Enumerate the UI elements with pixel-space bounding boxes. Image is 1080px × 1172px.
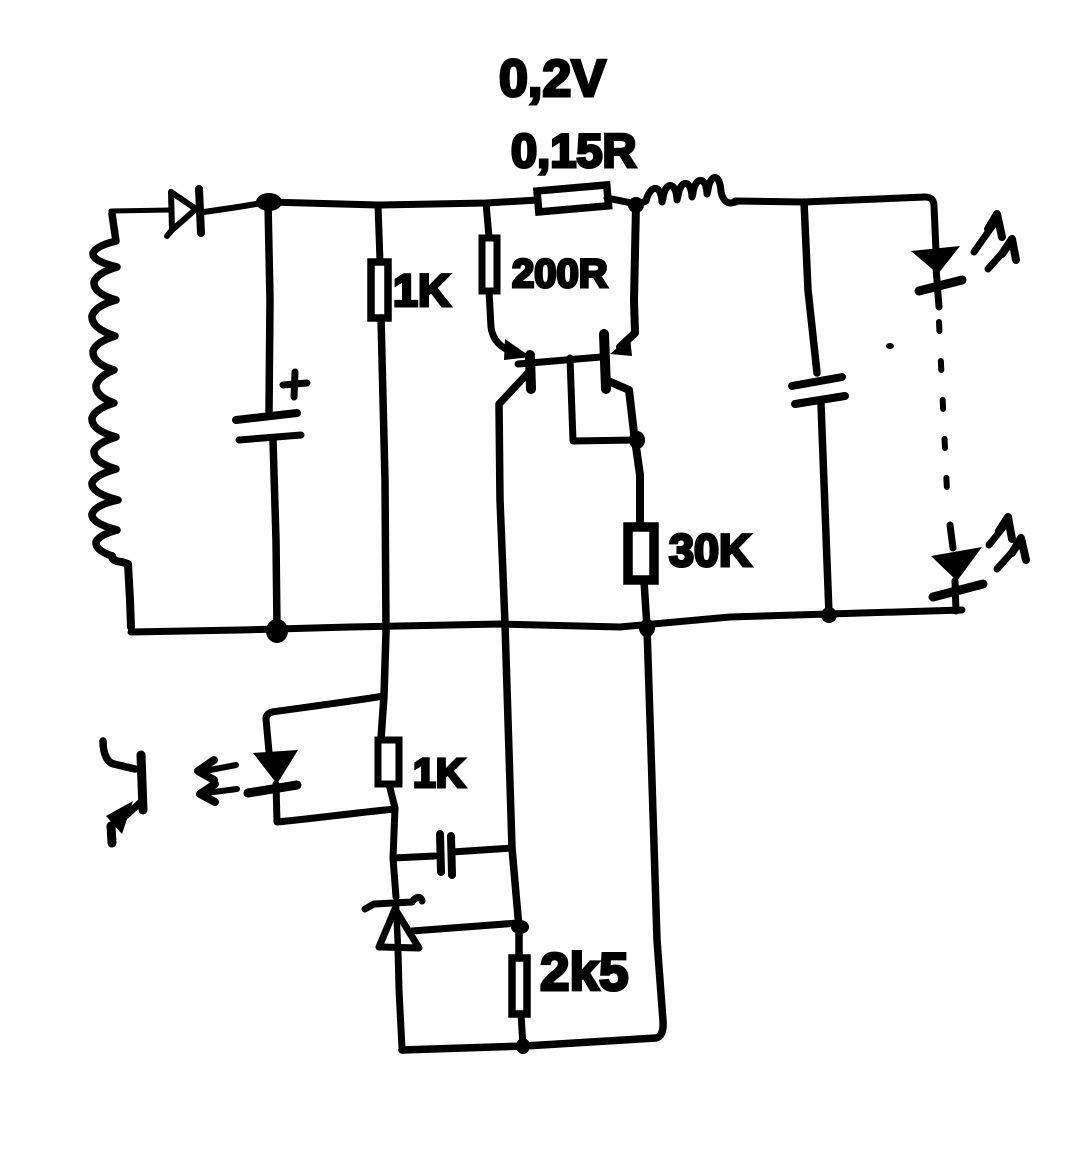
svg-text:1K: 1K — [393, 265, 451, 316]
svg-text:1K: 1K — [413, 750, 466, 796]
svg-text:30K: 30K — [669, 525, 752, 576]
svg-text:200R: 200R — [512, 252, 608, 296]
svg-text:2k5: 2k5 — [540, 943, 628, 1002]
svg-text:0,15R: 0,15R — [511, 124, 636, 177]
svg-text:0,2V: 0,2V — [499, 50, 606, 108]
